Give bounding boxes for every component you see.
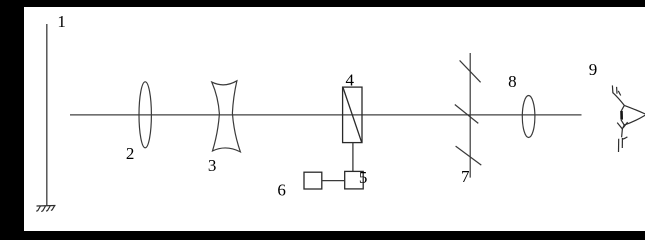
eye 9	[612, 85, 645, 152]
box 5 (detector)	[345, 171, 364, 189]
svg-text:8: 8	[508, 72, 516, 91]
mirror 1	[46, 24, 48, 206]
box 6	[304, 172, 322, 189]
svg-text:2: 2	[126, 144, 134, 163]
svg-text:9: 9	[589, 60, 598, 79]
svg-text:6: 6	[277, 180, 286, 199]
eye iris	[620, 111, 623, 120]
svg-text:5: 5	[359, 168, 368, 187]
hatch (mirror mount)	[36, 206, 55, 212]
lens 2	[139, 82, 151, 148]
lens 3 (double concave)	[212, 81, 241, 152]
svg-text:4: 4	[346, 71, 355, 90]
wire 6 to 5	[322, 180, 345, 182]
lens 8	[522, 96, 535, 138]
grating 7	[455, 53, 482, 178]
wire 4 to 5	[352, 143, 354, 172]
modulator 4	[343, 87, 362, 143]
svg-text:1: 1	[57, 12, 66, 31]
optical axis wire	[70, 114, 582, 116]
svg-text:7: 7	[461, 167, 470, 186]
svg-text:3: 3	[208, 156, 217, 175]
